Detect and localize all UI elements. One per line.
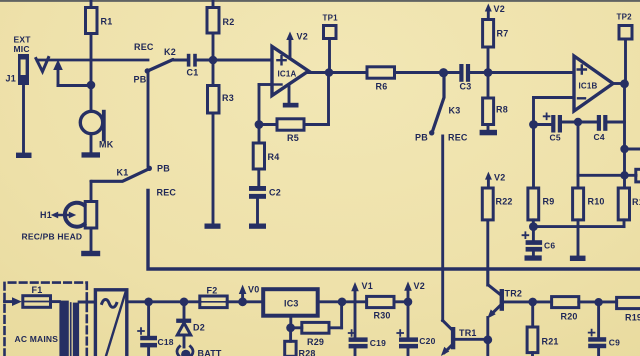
jack switch contact [36,58,49,72]
node mic junction [87,81,96,90]
wire K3 REC drop [441,136,444,321]
svg-text:R9: R9 [543,197,555,207]
wire F2 to IC3 [227,300,263,303]
transistor TR2 [487,271,522,340]
svg-text:R3: R3 [222,93,234,103]
svg-text:MIC: MIC [14,44,30,54]
svg-text:R10: R10 [588,197,605,207]
svg-text:K1: K1 [117,168,129,178]
capacitor C1 [173,54,213,78]
microphone MK [80,85,113,158]
resistor R5 [259,119,304,143]
capacitor C2 [249,186,281,229]
node R9 bottom [529,222,538,231]
capacitor C20 [397,302,435,356]
svg-text:REC/PB HEAD: REC/PB HEAD [22,232,83,242]
fuse F2 [200,286,227,308]
svg-text:TR2: TR2 [505,289,523,299]
node R19/C9 [594,298,602,306]
svg-text:C9: C9 [609,338,620,348]
wire IC1B inverting input [534,98,575,125]
wire rectifier output [127,300,200,303]
resistor R6 [367,67,443,92]
svg-text:F1: F1 [32,285,43,295]
svg-text:R20: R20 [561,312,578,322]
switch K1 [91,164,176,198]
node C5 left [529,120,538,129]
op-amp IC1A [272,47,309,96]
svg-text:R29: R29 [307,337,324,347]
label AC MAINS [15,334,59,344]
node R28/R29 [286,323,295,332]
svg-text:C3: C3 [460,82,472,92]
resistor R8 [480,73,508,136]
capacitor C6 [523,227,556,261]
resistor R29 [291,302,342,347]
svg-text:EXT: EXT [14,35,32,45]
wire R9-R10-R11 bottoms [533,225,624,228]
switch K2 [134,47,176,85]
svg-text:R11: R11 [632,197,640,207]
capacitor C18 [138,298,174,356]
wire IC1A inverting input [259,85,272,125]
resistor R30 [367,296,404,320]
battery BATT [177,346,222,356]
node R7/R8 [484,68,493,77]
svg-text:REC: REC [448,133,468,143]
svg-text:V1: V1 [362,281,373,291]
resistor R20 [552,297,599,322]
svg-text:K3: K3 [449,106,461,116]
svg-text:V2: V2 [414,281,425,291]
resistor R11 [618,188,640,227]
dashed mains box [5,283,87,356]
node IC1A output [325,68,334,77]
node R21 top [528,298,537,307]
svg-text:C4: C4 [594,132,605,142]
wire TR2 base [504,300,552,303]
svg-text:PB: PB [157,164,170,174]
svg-text:AC MAINS: AC MAINS [15,334,59,344]
svg-text:REC: REC [157,188,177,198]
node V2 supply [404,281,425,306]
test point TP2 [617,13,633,84]
resistor R9 [528,125,555,227]
svg-text:R1: R1 [101,17,113,27]
power V2 at IC1A [286,32,308,58]
transformer T1 [51,301,96,356]
node R2/C1 [209,56,218,65]
resistor R22 [482,172,512,285]
wire main bus [148,191,640,270]
capacitor C19 [349,302,386,356]
svg-text:TP2: TP2 [617,13,633,22]
svg-text:J1: J1 [6,74,16,84]
svg-text:R30: R30 [374,311,391,321]
head H1 [22,181,101,256]
wire IC1A feedback [304,73,329,125]
ground at IC1A [283,85,299,108]
resistor R28 [285,328,316,356]
svg-text:BATT: BATT [198,349,222,356]
svg-text:R19: R19 [625,313,640,323]
capacitor C9 [588,302,620,356]
bias arrow [53,60,91,86]
resistor R4 [253,125,279,187]
svg-text:R6: R6 [376,82,388,92]
node feedback stub [620,145,640,153]
wire main input row [37,59,148,62]
svg-text:R8: R8 [496,105,508,115]
svg-text:K2: K2 [164,47,176,57]
wire IC1A output [309,71,368,74]
node K3 common [439,68,448,77]
resistor R3 [205,60,234,229]
fuse F1 [5,285,51,307]
svg-text:V2: V2 [494,4,505,14]
svg-text:R4: R4 [268,152,280,162]
svg-text:C18: C18 [158,337,174,347]
switch K3 [415,77,468,143]
svg-text:IC1B: IC1B [579,82,598,91]
svg-text:PB: PB [134,75,147,85]
svg-text:H1: H1 [40,210,52,220]
svg-text:C5: C5 [550,133,561,143]
node V1 [351,281,373,302]
svg-text:R22: R22 [496,197,513,207]
capacitor C5 [534,113,579,142]
diode D2 [176,298,205,348]
resistor R19 [599,297,640,322]
node C5/C4 [574,118,582,126]
resistor R21 [527,302,559,356]
wire IC3 adj [289,316,292,328]
svg-text:R5: R5 [287,133,299,143]
svg-text:V0: V0 [248,285,259,295]
wire C1 to IC1A [213,59,272,62]
svg-text:IC1A: IC1A [278,70,297,79]
node V0 [238,285,259,307]
svg-text:R28: R28 [299,349,316,356]
resistor R1 [86,0,113,85]
svg-text:IC3: IC3 [284,299,299,309]
svg-text:F2: F2 [207,286,218,296]
svg-text:C1: C1 [187,68,199,78]
wire IC1B output drop [623,84,626,188]
svg-text:R21: R21 [542,337,559,347]
wire K2 PB drop [147,73,150,166]
transistor TR1 [441,321,488,356]
label REC (K2 top) [134,42,154,52]
svg-text:C6: C6 [544,241,555,251]
svg-text:PB: PB [415,133,428,143]
svg-text:R2: R2 [223,17,235,27]
node IC3 out [338,298,347,307]
svg-text:REC: REC [134,42,154,52]
wire C5/C4 to R10 [577,122,580,175]
op-amp IC1B [574,56,613,111]
svg-text:R7: R7 [497,29,509,39]
resistor R12 edge [636,169,640,182]
svg-text:V2: V2 [494,173,505,183]
connector J1 [6,35,32,159]
svg-text:TR1: TR1 [459,328,477,338]
regulator IC3 [263,289,318,316]
capacitor C3 [444,64,575,92]
svg-text:V2: V2 [297,32,308,42]
svg-text:C19: C19 [370,338,386,348]
capacitor C4 [578,115,625,142]
svg-text:MK: MK [99,140,114,150]
node R5/R4 [255,120,264,129]
svg-text:D2: D2 [193,323,205,333]
test point TP1 [323,14,339,69]
resistor R7 [483,4,509,73]
node TR1 base / TR2 emitter [483,335,492,356]
svg-text:TP1: TP1 [323,14,339,23]
node IC1B output [613,79,629,88]
svg-text:C2: C2 [269,188,281,198]
resistor R10 [570,175,605,261]
wire IC3 output [318,300,367,303]
resistor R2 [207,0,234,60]
node R11 top [578,171,636,179]
rectifier bridge [95,290,126,356]
svg-text:C20: C20 [419,336,435,346]
